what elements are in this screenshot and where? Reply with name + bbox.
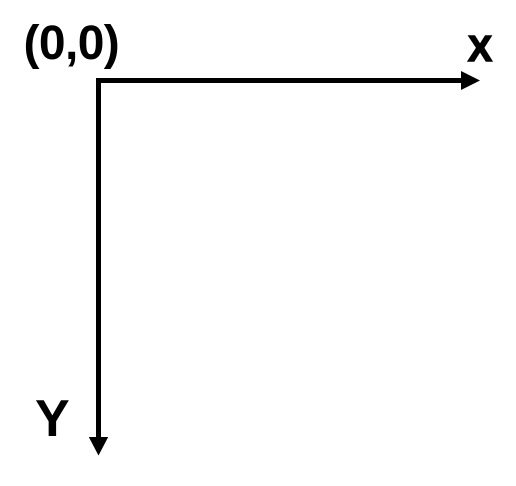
y-axis wire: [96, 78, 101, 438]
x-axis label X: [468, 31, 492, 67]
x-axis wire: [99, 78, 463, 83]
y-axis arrowhead: [89, 437, 108, 456]
y-axis label Y: [35, 393, 70, 445]
origin label (0,0): [24, 20, 120, 68]
x-axis arrowhead: [461, 71, 480, 90]
